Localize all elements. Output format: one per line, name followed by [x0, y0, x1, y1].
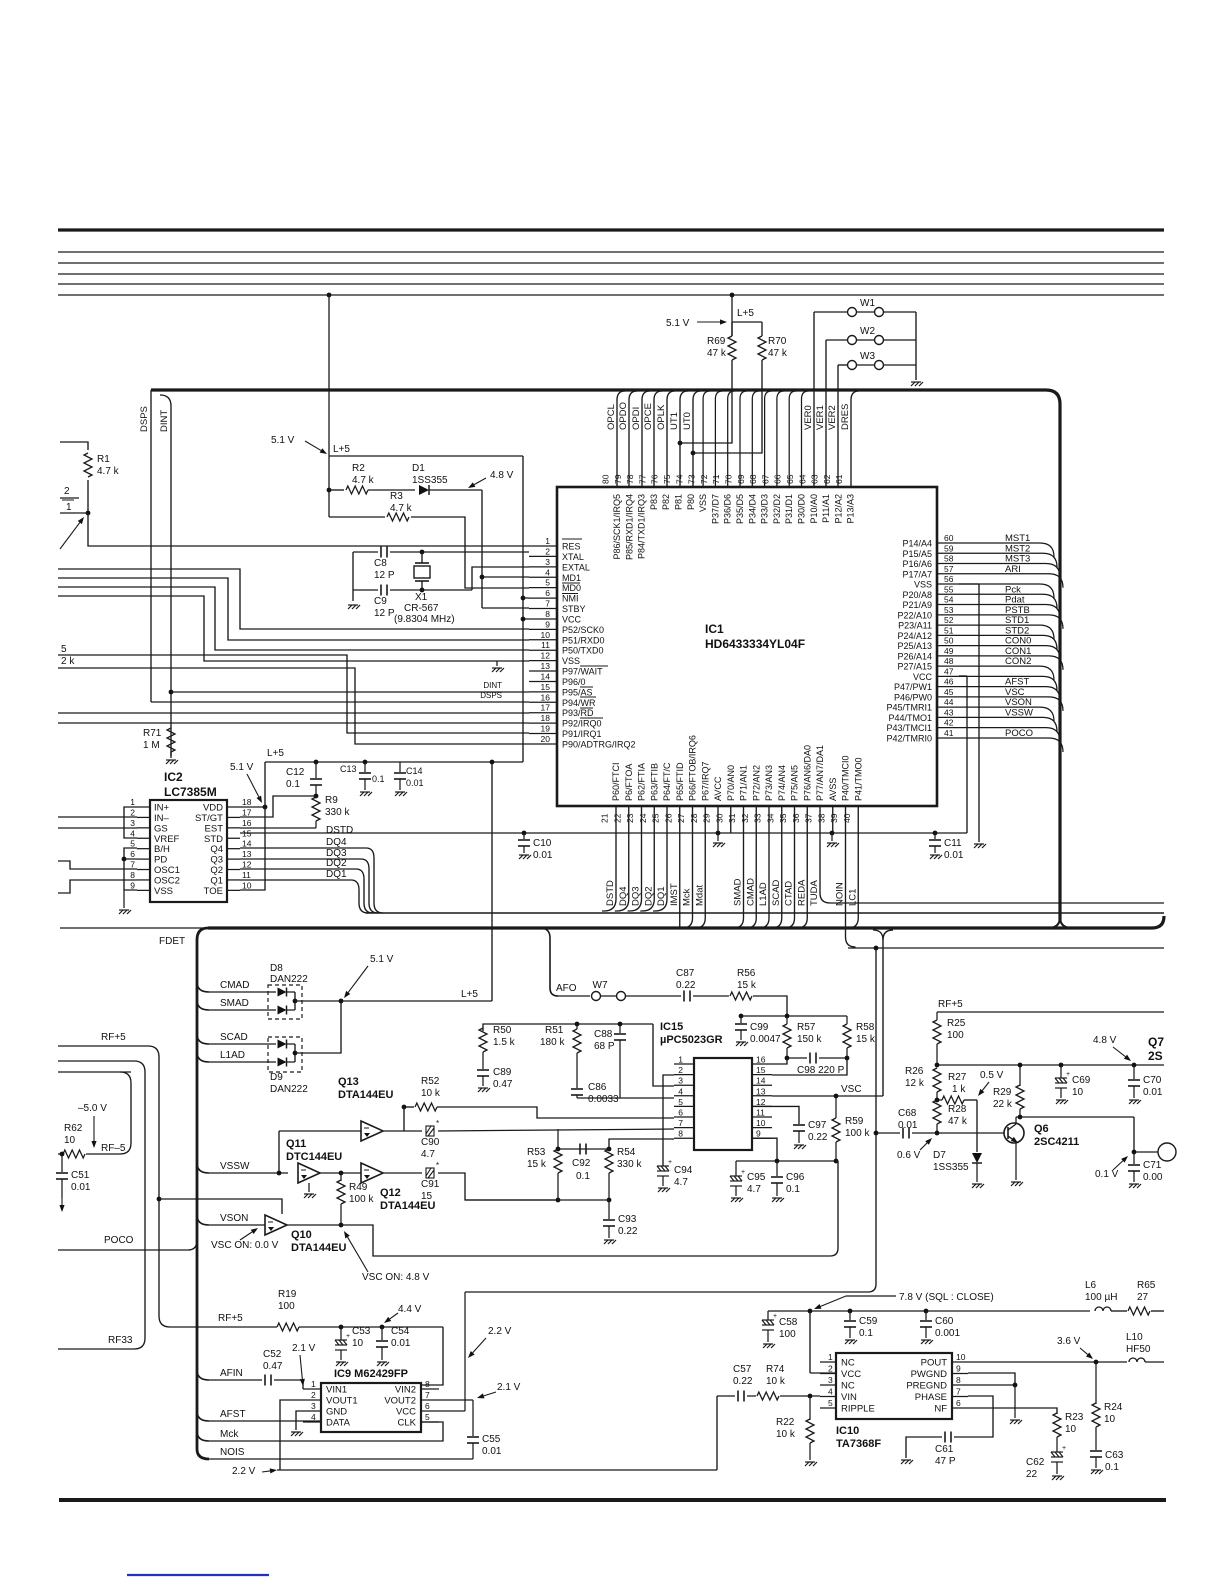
svg-text:R3: R3 [390, 491, 403, 502]
svg-text:100: 100 [947, 1030, 964, 1041]
IC10 pin stubs [820, 1361, 836, 1363]
svg-text:2: 2 [64, 486, 70, 497]
capacitor C54 0.01 [380, 1325, 385, 1330]
wire Mck from pin 27 [683, 806, 693, 928]
node R2 junction [327, 488, 332, 493]
svg-text:5: 5 [61, 644, 67, 655]
svg-text:R69: R69 [707, 336, 726, 347]
wire OPCE column [654, 391, 662, 487]
svg-text:P47/PW1: P47/PW1 [894, 682, 932, 692]
svg-text:P94/WR: P94/WR [562, 698, 596, 708]
IC2 left bracket pins 5-6 [124, 848, 137, 859]
svg-text:100 µH: 100 µH [1085, 1292, 1117, 1303]
wire POUT to L10 [968, 1361, 1127, 1363]
node UT0 join [691, 451, 696, 456]
svg-text:10 k: 10 k [766, 1376, 786, 1387]
wire R3 lead left [329, 516, 385, 518]
svg-text:6: 6 [678, 1108, 683, 1118]
jumper W3 [838, 364, 847, 366]
resistor R23 10 [1053, 1413, 1061, 1437]
svg-text:P13/A3: P13/A3 [846, 494, 856, 524]
svg-text:OPCL: OPCL [606, 404, 617, 430]
svg-text:15: 15 [756, 1065, 766, 1075]
svg-text:VCC: VCC [913, 672, 933, 682]
wire D8 common to 5.1V node [295, 1000, 341, 1002]
ground VSS pin56 [974, 844, 986, 848]
svg-text:66: 66 [773, 474, 783, 484]
svg-text:SMAD: SMAD [733, 878, 744, 906]
svg-text:CMAD: CMAD [745, 878, 756, 906]
resistor R9 330k [312, 797, 320, 821]
svg-text:0.01: 0.01 [944, 850, 964, 861]
svg-text:SCAD: SCAD [771, 879, 782, 906]
svg-text:POUT: POUT [921, 1358, 948, 1369]
wire VSS pin56 down to ground [959, 583, 979, 585]
svg-text:SCAD: SCAD [220, 1032, 248, 1043]
svg-text:2: 2 [130, 807, 135, 817]
svg-text:47: 47 [944, 666, 954, 676]
svg-text:R28: R28 [948, 1104, 967, 1115]
svg-text:58: 58 [944, 554, 954, 564]
svg-text:R59: R59 [845, 1116, 864, 1127]
svg-text:VDD: VDD [203, 803, 223, 814]
node MD1 branch [480, 575, 485, 580]
wire top bus line 2 [58, 251, 1164, 253]
svg-text:R19: R19 [278, 1289, 297, 1300]
svg-text:P35/D5: P35/D5 [735, 494, 745, 524]
svg-text:AVCC: AVCC [713, 776, 723, 801]
svg-text:DINT: DINT [159, 410, 170, 432]
svg-text:C87: C87 [676, 968, 695, 979]
svg-text:10: 10 [1104, 1414, 1116, 1425]
transistor Q10 DTA144EU [265, 1215, 287, 1235]
node L+5 junction on bus [327, 293, 332, 298]
svg-text:VREF: VREF [154, 834, 180, 845]
svg-text:26: 26 [663, 813, 673, 823]
svg-text:GND: GND [326, 1407, 347, 1418]
svg-text:67: 67 [760, 474, 770, 484]
svg-text:47 k: 47 k [948, 1116, 968, 1127]
svg-text:NOIS: NOIS [220, 1447, 245, 1458]
svg-text:VSSW: VSSW [220, 1161, 250, 1172]
svg-text:44: 44 [944, 697, 954, 707]
svg-text:100 k: 100 k [349, 1194, 374, 1205]
svg-text:CMAD: CMAD [220, 980, 249, 991]
svg-text:R24: R24 [1104, 1402, 1123, 1413]
svg-text:22: 22 [1026, 1469, 1038, 1480]
wire C9 row [353, 589, 378, 591]
svg-text:4.7: 4.7 [747, 1184, 761, 1195]
svg-text:L+5: L+5 [333, 444, 350, 455]
svg-text:11: 11 [242, 870, 251, 880]
svg-text:EXTAL: EXTAL [562, 562, 590, 572]
wire main bottom bus thick y=928 [60, 927, 1046, 929]
svg-text:RF33: RF33 [108, 1335, 133, 1346]
IC1 right signal wires to bus bundle [959, 543, 1054, 557]
svg-text:C51: C51 [71, 1170, 90, 1181]
resistor R59 100k [835, 1096, 837, 1118]
svg-text:C53: C53 [352, 1326, 371, 1337]
svg-text:29: 29 [702, 813, 712, 823]
svg-text:C59: C59 [859, 1316, 878, 1327]
svg-text:UT0: UT0 [682, 412, 693, 430]
capacitor C94 4.7 polarized [657, 1166, 669, 1176]
wire PHASE to C61 [954, 1396, 993, 1437]
svg-text:2SC4211: 2SC4211 [1034, 1136, 1079, 1148]
svg-text:1SS355: 1SS355 [412, 475, 448, 486]
resistor R53 15k [554, 1149, 562, 1173]
svg-text:64: 64 [797, 474, 807, 484]
svg-text:RF–5: RF–5 [101, 1143, 126, 1154]
svg-text:1.5 k: 1.5 k [493, 1037, 516, 1048]
svg-text:RES: RES [562, 542, 581, 552]
svg-text:VCC: VCC [396, 1407, 416, 1418]
wire R69 to UT1 column [680, 360, 732, 443]
svg-text:IN–: IN– [154, 813, 170, 824]
svg-text:50: 50 [944, 636, 954, 646]
svg-text:EST: EST [205, 823, 224, 834]
wire bus line to P50 (staircase) [58, 587, 529, 650]
svg-text:150 k: 150 k [797, 1034, 822, 1045]
wire XTAL row [353, 551, 378, 553]
svg-text:IC1: IC1 [705, 622, 724, 636]
svg-text:W3: W3 [860, 351, 875, 362]
svg-text:P86/SCK1/IRQ5: P86/SCK1/IRQ5 [612, 494, 622, 560]
svg-text:P82: P82 [661, 494, 671, 510]
diode D9 DAN222 [268, 1037, 302, 1072]
wire VER2 column [837, 365, 839, 487]
svg-text:C92: C92 [572, 1158, 591, 1169]
svg-text:69: 69 [736, 474, 746, 484]
svg-text:22 k: 22 k [993, 1099, 1013, 1110]
wire 2.2V vertical [464, 1292, 466, 1411]
svg-text:0.5 V: 0.5 V [980, 1070, 1004, 1081]
svg-text:7: 7 [956, 1387, 961, 1397]
svg-text:TA7368F: TA7368F [836, 1438, 881, 1450]
wire AFO row [556, 995, 590, 997]
IC9 pin stubs [303, 1388, 321, 1390]
resistor R56 15k [730, 992, 752, 1000]
capacitor C57 0.22 [717, 1395, 735, 1397]
svg-text:24: 24 [638, 813, 648, 823]
svg-text:DQ1: DQ1 [656, 886, 667, 906]
svg-text:P92/IRQ0: P92/IRQ0 [562, 719, 602, 729]
svg-text:5.1 V: 5.1 V [271, 435, 295, 446]
svg-text:DQ1: DQ1 [326, 869, 347, 880]
wire R53/R54 node rail y=1149 [558, 1148, 609, 1150]
svg-text:P85/RXD1/IRQ4: P85/RXD1/IRQ4 [624, 494, 634, 560]
svg-text:31: 31 [727, 813, 737, 823]
svg-text:P45/TMRI1: P45/TMRI1 [886, 703, 932, 713]
svg-text:P10/A0: P10/A0 [809, 494, 819, 524]
svg-text:11: 11 [756, 1108, 765, 1118]
resistor R26 12k [933, 1068, 941, 1092]
svg-text:18: 18 [541, 713, 551, 723]
svg-text:Q2: Q2 [210, 865, 223, 876]
svg-text:12: 12 [541, 651, 551, 661]
resistor R29 22k [1019, 1065, 1021, 1086]
svg-text:R27: R27 [948, 1072, 967, 1083]
svg-text:8: 8 [130, 870, 135, 880]
svg-text:L10: L10 [1126, 1332, 1143, 1343]
svg-text:VER0: VER0 [803, 405, 814, 430]
svg-text:PREGND: PREGND [906, 1381, 947, 1392]
wire AFO peel from bus [540, 928, 558, 996]
wire L1AD from IC1 pin 33 [759, 806, 769, 928]
svg-text:46: 46 [944, 677, 954, 687]
jumper W2 [826, 339, 847, 341]
svg-text:P14/A4: P14/A4 [902, 539, 932, 549]
svg-text:L+5: L+5 [461, 989, 478, 1000]
svg-text:P24/A12: P24/A12 [897, 631, 932, 641]
svg-text:1SS355: 1SS355 [933, 1162, 969, 1173]
svg-text:5: 5 [678, 1097, 683, 1107]
svg-text:VSC ON: 0.0 V: VSC ON: 0.0 V [211, 1240, 279, 1251]
svg-text:P23/A11: P23/A11 [898, 621, 932, 631]
svg-text:32: 32 [740, 813, 750, 823]
svg-text:7: 7 [678, 1118, 683, 1128]
svg-text:C97: C97 [808, 1120, 827, 1131]
svg-text:P67/IRQ7: P67/IRQ7 [700, 761, 710, 801]
capacitor C53 10 polarized [339, 1325, 344, 1330]
svg-text:XTAL: XTAL [562, 552, 584, 562]
svg-text:P26/A14: P26/A14 [897, 651, 932, 661]
svg-text:59: 59 [944, 543, 954, 553]
capacitor C11 [933, 831, 938, 836]
svg-text:P42/TMRI0: P42/TMRI0 [886, 733, 932, 743]
svg-text:R57: R57 [797, 1022, 816, 1033]
svg-text:0.0033: 0.0033 [588, 1094, 619, 1105]
wire top bus line 3 [58, 262, 1164, 264]
svg-text:R74: R74 [766, 1364, 785, 1375]
svg-text:R50: R50 [493, 1025, 512, 1036]
svg-text:IC9 M62429FP: IC9 M62429FP [334, 1368, 408, 1380]
wire DQ4 from IC1 pin 22 [615, 806, 629, 911]
wire REDA from IC1 pin 36 [797, 806, 807, 928]
svg-text:OPLK: OPLK [656, 404, 667, 430]
wire R2 lead [329, 489, 344, 491]
wire NF to R23 [968, 1408, 1057, 1414]
wire AFIN to pin1 [274, 1380, 303, 1389]
svg-text:C70: C70 [1143, 1075, 1162, 1086]
svg-text:TOE: TOE [204, 886, 223, 897]
svg-text:VSS: VSS [562, 656, 580, 666]
diode D7 1SS355 [972, 1153, 982, 1163]
connector pin 2 stub [60, 497, 79, 499]
wire DINT vertical [160, 395, 171, 756]
svg-text:2.2 V: 2.2 V [488, 1326, 512, 1337]
svg-text:8: 8 [678, 1129, 683, 1139]
wire R2 to D1 [368, 489, 415, 491]
svg-text:0.47: 0.47 [263, 1361, 283, 1372]
svg-text:Q1: Q1 [210, 875, 223, 886]
svg-text:0.01: 0.01 [1143, 1087, 1163, 1098]
svg-text:ST/GT: ST/GT [195, 813, 223, 824]
svg-text:1 k: 1 k [952, 1084, 966, 1095]
svg-text:P74/AN4: P74/AN4 [777, 765, 787, 801]
wire to MD1 pin 4 [482, 576, 529, 578]
capacitor C68 0.01 [876, 1132, 900, 1134]
svg-text:10: 10 [756, 1118, 766, 1128]
svg-text:DQ4: DQ4 [618, 886, 629, 906]
resistor R49 100k [340, 1173, 342, 1181]
wire TUDA from IC1 pin 37 [820, 806, 1164, 903]
svg-text:Q12: Q12 [380, 1187, 401, 1199]
svg-text:P34/D4: P34/D4 [747, 494, 757, 524]
svg-text:12 k: 12 k [905, 1078, 925, 1089]
svg-text:42: 42 [944, 718, 954, 728]
resistor R19 100 [277, 1323, 299, 1331]
wire RF+5 junction to right (x=159) [157, 1197, 162, 1202]
wire C86/C88 to IC15 pin4 [577, 1097, 674, 1099]
wire R56 corner down to 1016 rail [753, 996, 787, 1016]
svg-text:71: 71 [711, 474, 721, 484]
svg-text:P70/AN0: P70/AN0 [726, 765, 736, 801]
svg-text:0.22: 0.22 [808, 1132, 828, 1143]
capacitor C89 0.47 [482, 1052, 484, 1069]
resistor R51 180k [575, 1022, 580, 1027]
svg-text:LC1: LC1 [847, 889, 858, 906]
svg-text:P64/FT/C: P64/FT/C [662, 762, 672, 801]
svg-text:–5.0 V: –5.0 V [78, 1103, 107, 1114]
wire R1 to junction [87, 480, 89, 513]
wire IMST from pin 26 [679, 806, 681, 927]
svg-text:C96: C96 [786, 1172, 805, 1183]
svg-text:Q11: Q11 [286, 1138, 306, 1150]
svg-text:DATA: DATA [326, 1418, 351, 1429]
svg-text:6: 6 [425, 1401, 430, 1411]
svg-text:P20/A8: P20/A8 [902, 590, 932, 600]
ground R71 [166, 760, 178, 764]
wire 2.1V node down via C55 [472, 1400, 474, 1436]
svg-text:AFO: AFO [556, 983, 577, 994]
svg-text:DSPS: DSPS [139, 406, 150, 432]
svg-text:77: 77 [637, 474, 647, 484]
svg-text:P63/FTIB: P63/FTIB [649, 763, 659, 801]
svg-text:56: 56 [944, 574, 954, 584]
svg-text:P31/D1: P31/D1 [784, 494, 794, 524]
svg-text:P44/TMO1: P44/TMO1 [888, 713, 932, 723]
svg-text:15: 15 [541, 682, 551, 692]
svg-text:100 k: 100 k [845, 1128, 870, 1139]
capacitor C93 0.22 [608, 1200, 610, 1219]
svg-text:*: * [436, 1119, 439, 1128]
wire DQ2 from IC1 pin 24 [640, 806, 654, 911]
svg-text:15 k: 15 k [856, 1034, 876, 1045]
wire RES net from connector to IC1 pin 1 [88, 513, 529, 546]
svg-text:P81: P81 [674, 494, 684, 510]
wire L6 to R65 [1111, 1310, 1127, 1312]
wire L+5 spine down to IC2 rail [522, 456, 524, 762]
svg-text:P77/AN7/DA1: P77/AN7/DA1 [815, 745, 825, 801]
wire bus line to VSS pin12 (staircase) [58, 596, 529, 661]
svg-text:2: 2 [828, 1364, 833, 1374]
svg-text:C8: C8 [374, 558, 387, 569]
node VIN [808, 1394, 813, 1399]
wire jumper common to ground [915, 312, 917, 380]
svg-text:C93: C93 [618, 1214, 637, 1225]
svg-text:CLK: CLK [398, 1418, 417, 1429]
svg-text:10: 10 [1072, 1087, 1084, 1098]
svg-text:38: 38 [816, 813, 826, 823]
svg-text:P76/AN6/DA0: P76/AN6/DA0 [802, 745, 812, 801]
svg-text:61: 61 [834, 474, 844, 484]
svg-text:Q7: Q7 [1148, 1035, 1164, 1049]
wire Q13 input [279, 1130, 361, 1132]
svg-text:47 k: 47 k [768, 348, 788, 359]
wire DQ1 from IC1 pin 25 [653, 806, 667, 911]
svg-text:27: 27 [1137, 1292, 1149, 1303]
svg-text:+: + [741, 1169, 745, 1176]
svg-text:DAN222: DAN222 [270, 974, 308, 985]
wire D1 output 4.8V node [429, 489, 482, 491]
svg-text:2.1 V: 2.1 V [497, 1382, 521, 1393]
capacitor C8 [380, 547, 382, 558]
svg-text:P46/PW0: P46/PW0 [894, 692, 932, 702]
capacitor C91 [426, 1168, 434, 1178]
wire R52 to IC15 pin6 [437, 1107, 674, 1118]
svg-text:W1: W1 [860, 298, 875, 309]
wire SMAD peel [197, 1000, 209, 1010]
svg-text:P52/SCK0: P52/SCK0 [562, 625, 604, 635]
svg-text:OPDI: OPDI [631, 407, 642, 430]
svg-text:DTA144EU: DTA144EU [291, 1242, 346, 1254]
svg-text:R70: R70 [768, 336, 787, 347]
wire GS from left edge [58, 827, 137, 829]
svg-text:C86: C86 [588, 1082, 607, 1093]
wire C95/C96 node rail [736, 1160, 836, 1162]
svg-text:R53: R53 [527, 1147, 546, 1158]
IC15 pin stubs [674, 1063, 694, 1065]
svg-text:0.01: 0.01 [406, 778, 424, 788]
svg-text:2S: 2S [1148, 1049, 1163, 1063]
svg-text:3: 3 [311, 1401, 316, 1411]
wire 4.8V node down [481, 490, 483, 608]
page bottom border thick line [59, 1498, 1166, 1502]
svg-text:VIN1: VIN1 [326, 1385, 347, 1396]
svg-text:NF: NF [934, 1404, 947, 1415]
wire Q13 output [383, 1130, 404, 1132]
svg-text:15 k: 15 k [737, 980, 757, 991]
svg-text:FDET: FDET [159, 936, 185, 947]
svg-text:P15/A5: P15/A5 [902, 549, 932, 559]
wire LC1 pin 40 [848, 806, 858, 928]
svg-text:Q10: Q10 [291, 1229, 312, 1241]
wire PD/VSS to ground [124, 859, 137, 890]
svg-text:36: 36 [791, 813, 801, 823]
svg-text:48: 48 [944, 656, 954, 666]
wire SCAD peel [197, 1034, 209, 1044]
capacitor C70 0.01 [1132, 1063, 1137, 1068]
node R49 top [339, 1171, 344, 1176]
svg-text:DSPS: DSPS [480, 691, 502, 700]
wire L+5 right rail [732, 321, 762, 323]
wire 948 line right [848, 947, 1164, 949]
node Q13 out to R52 [402, 1105, 407, 1110]
svg-text:VCC: VCC [841, 1369, 861, 1380]
svg-text:60: 60 [944, 533, 954, 543]
svg-text:0.22: 0.22 [733, 1376, 753, 1387]
crystal X1 CR-567 [415, 562, 429, 564]
svg-text:27: 27 [676, 813, 686, 823]
svg-text:P91/IRQ1: P91/IRQ1 [562, 729, 602, 739]
svg-text:7: 7 [425, 1390, 430, 1400]
wire bus line to P52 (staircase) [58, 569, 529, 629]
wire DINT to IC1 pin15 [171, 691, 529, 693]
svg-text:VIN2: VIN2 [395, 1385, 416, 1396]
svg-text:1 M: 1 M [143, 740, 160, 751]
svg-text:C68: C68 [898, 1108, 917, 1119]
